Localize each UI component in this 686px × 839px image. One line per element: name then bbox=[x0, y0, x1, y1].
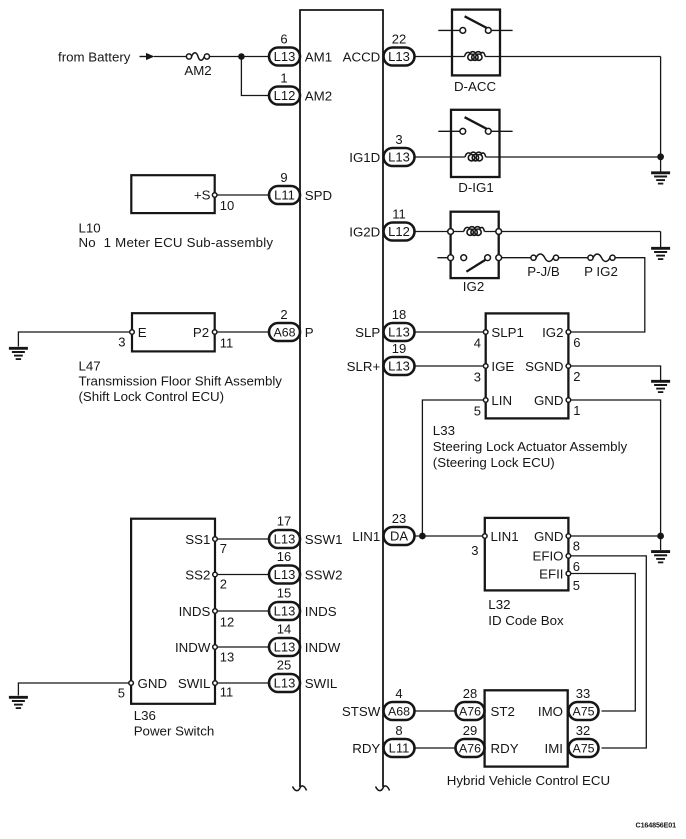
svg-text:L13: L13 bbox=[388, 325, 410, 340]
svg-text:A75: A75 bbox=[572, 705, 594, 719]
svg-text:from Battery: from Battery bbox=[58, 49, 131, 64]
connector oval L13 (ACCD pin 22) bbox=[384, 48, 415, 66]
svg-text:SSW1: SSW1 bbox=[305, 532, 343, 547]
terminal GND (pin 1) bbox=[566, 398, 571, 403]
svg-text:32: 32 bbox=[576, 723, 590, 738]
svg-text:18: 18 bbox=[392, 307, 406, 322]
svg-text:L13: L13 bbox=[388, 49, 410, 64]
wire: L33 SGND to ground bbox=[568, 366, 660, 380]
svg-text:11: 11 bbox=[392, 207, 406, 222]
svg-text:AM2: AM2 bbox=[305, 88, 332, 103]
connector oval A75 (IMO pin 33) bbox=[569, 702, 599, 720]
svg-text:ACCD: ACCD bbox=[343, 49, 381, 64]
svg-text:LIN1: LIN1 bbox=[491, 529, 519, 544]
svg-text:2: 2 bbox=[573, 369, 580, 384]
svg-text:15: 15 bbox=[277, 586, 291, 601]
connector oval L11 (RDY pin 8) bbox=[384, 739, 415, 757]
svg-text:P2: P2 bbox=[193, 325, 209, 340]
connector oval L13 (INDS pin 15) bbox=[269, 602, 300, 620]
svg-text:23: 23 bbox=[392, 511, 406, 526]
svg-text:13: 13 bbox=[220, 649, 234, 664]
svg-text:L10: L10 bbox=[79, 220, 101, 235]
svg-text:L47: L47 bbox=[79, 358, 101, 373]
wire: SLR+ to L33 IGE bbox=[415, 365, 486, 367]
connector oval A75 (IMI pin 32) bbox=[569, 739, 599, 757]
Hybrid Vehicle Control ECU box bbox=[485, 690, 568, 766]
svg-text:L13: L13 bbox=[274, 640, 296, 655]
L33 Steering Lock Actuator Assembly box bbox=[486, 313, 569, 418]
svg-text:INDW: INDW bbox=[305, 640, 341, 655]
connector oval DA (LIN1 pin 23) bbox=[384, 527, 415, 545]
svg-text:9: 9 bbox=[280, 170, 287, 185]
break squiggle at bottom of right column line bbox=[376, 786, 390, 791]
connector oval A76 (RDY pin 29) bbox=[456, 739, 485, 757]
wire: P-J/B to fuse P IG2 bbox=[559, 257, 588, 259]
svg-text:EFII: EFII bbox=[539, 566, 563, 581]
svg-text:28: 28 bbox=[463, 686, 477, 701]
svg-text:A68: A68 bbox=[388, 705, 410, 719]
svg-text:A76: A76 bbox=[459, 742, 481, 756]
wire: L32 GND to ground bbox=[571, 535, 661, 537]
terminal IGE (pin 3) bbox=[483, 364, 488, 369]
svg-text:IMI: IMI bbox=[545, 741, 563, 756]
svg-text:P: P bbox=[305, 325, 314, 340]
svg-text:6: 6 bbox=[573, 559, 580, 574]
svg-text:4: 4 bbox=[395, 686, 402, 701]
wire: branch down to AM2 connector bbox=[241, 57, 269, 96]
svg-text:GND: GND bbox=[534, 529, 564, 544]
svg-text:SLR+: SLR+ bbox=[347, 359, 381, 374]
svg-text:2: 2 bbox=[220, 576, 227, 591]
relay D-ACC bbox=[438, 10, 512, 76]
break squiggle at bottom of left column line bbox=[293, 786, 307, 791]
svg-text:Steering Lock Actuator Assembl: Steering Lock Actuator Assembly bbox=[433, 439, 628, 454]
svg-text:EFIO: EFIO bbox=[532, 549, 563, 564]
wire: IG2D through IG2 relay coil to ground bbox=[415, 231, 464, 233]
svg-text:L36: L36 bbox=[134, 708, 156, 723]
svg-text:3: 3 bbox=[474, 369, 481, 384]
L32 ID Code Box bbox=[485, 518, 569, 591]
svg-text:19: 19 bbox=[392, 341, 406, 356]
pin circle +S (pin 10) bbox=[212, 193, 217, 198]
svg-text:SPD: SPD bbox=[305, 188, 332, 203]
svg-text:12: 12 bbox=[220, 614, 234, 629]
wire: RDY to A76 bbox=[415, 747, 457, 749]
svg-text:D-IG1: D-IG1 bbox=[458, 180, 493, 195]
svg-text:2: 2 bbox=[280, 307, 287, 322]
ECU connector column (central vertical bus) bbox=[299, 10, 384, 787]
svg-text:IG2: IG2 bbox=[542, 325, 563, 340]
svg-text:5: 5 bbox=[573, 578, 580, 593]
svg-text:3: 3 bbox=[118, 334, 125, 349]
svg-text:(Shift Lock Control ECU): (Shift Lock Control ECU) bbox=[79, 389, 225, 404]
svg-text:29: 29 bbox=[463, 723, 477, 738]
svg-text:SS1: SS1 bbox=[185, 532, 210, 547]
wire: IG2 switch to fuse P-J/B bbox=[502, 257, 531, 259]
svg-text:IG2D: IG2D bbox=[349, 224, 380, 239]
svg-text:11: 11 bbox=[220, 335, 234, 350]
wire: fuse to connector L13 (AM1) bbox=[210, 56, 270, 58]
terminal EFIO (pin 8) bbox=[566, 554, 571, 559]
L10 No 1 Meter ECU Sub-assembly box bbox=[131, 175, 214, 213]
svg-text:RDY: RDY bbox=[352, 741, 380, 756]
ground (L32 GND / L33 GND) bbox=[651, 552, 670, 563]
connector oval L12 (IG2D pin 11) bbox=[384, 223, 415, 241]
terminal SLP1 (pin 4) bbox=[483, 330, 488, 335]
svg-text:17: 17 bbox=[277, 514, 291, 529]
svg-text:8: 8 bbox=[573, 539, 580, 554]
svg-text:L13: L13 bbox=[388, 150, 410, 165]
ground (L36 GND terminal) bbox=[18, 683, 131, 696]
fuse P-J/B bbox=[531, 254, 559, 262]
svg-text:INDW: INDW bbox=[175, 640, 211, 655]
wire: P2 to connector A68 bbox=[215, 331, 270, 333]
wire: ACCD through D-ACC coil to right bus bbox=[415, 56, 465, 58]
svg-text:LIN: LIN bbox=[491, 393, 512, 408]
svg-text:Transmission Floor Shift Assem: Transmission Floor Shift Assembly bbox=[79, 374, 283, 389]
svg-text:1: 1 bbox=[280, 71, 287, 86]
svg-text:L33: L33 bbox=[433, 423, 455, 438]
svg-text:L11: L11 bbox=[389, 741, 410, 756]
junction node LIN1 bus bbox=[419, 533, 426, 540]
svg-text:SWIL: SWIL bbox=[305, 676, 338, 691]
svg-text:P-J/B: P-J/B bbox=[527, 264, 560, 279]
svg-text:SLP1: SLP1 bbox=[491, 325, 524, 340]
svg-text:5: 5 bbox=[118, 685, 125, 700]
arrow (battery feed direction) bbox=[140, 56, 148, 58]
svg-text:IGE: IGE bbox=[491, 359, 514, 374]
svg-text:A68: A68 bbox=[273, 326, 295, 340]
svg-text:L12: L12 bbox=[388, 224, 410, 239]
svg-text:SGND: SGND bbox=[525, 359, 563, 374]
terminal GND of L32 bbox=[566, 534, 571, 539]
ground (IG2 relay coil) bbox=[651, 248, 670, 259]
relay IG2 bbox=[438, 212, 502, 278]
svg-text:L13: L13 bbox=[274, 49, 296, 64]
svg-text:SSW2: SSW2 bbox=[305, 567, 343, 582]
svg-text:LIN1: LIN1 bbox=[352, 529, 380, 544]
terminal LIN (pin 5) bbox=[483, 398, 488, 403]
svg-text:ID Code Box: ID Code Box bbox=[488, 613, 564, 628]
svg-text:A76: A76 bbox=[459, 705, 481, 719]
svg-text:+S: +S bbox=[194, 188, 211, 203]
wire: L33 GND down right side to L32 GND junction bbox=[568, 400, 660, 536]
L36 Power Switch box bbox=[131, 519, 215, 704]
svg-text:33: 33 bbox=[576, 686, 590, 701]
junction node at right bus / L32 GND bbox=[657, 533, 664, 540]
wire: +S pin to SPD connector bbox=[215, 194, 270, 196]
connector oval L13 (IG1D pin 3) bbox=[384, 148, 415, 166]
wire: EFII right and down to IMO bbox=[571, 574, 636, 712]
connector oval L11 (SPD pin 9) bbox=[269, 186, 300, 204]
svg-text:11: 11 bbox=[220, 684, 234, 699]
svg-text:(Steering Lock ECU): (Steering Lock ECU) bbox=[433, 455, 555, 470]
wire: STSW to A76 bbox=[415, 710, 457, 712]
wire: right bus down to ground junction bbox=[660, 57, 662, 172]
terminal LIN1 (pin 3) bbox=[483, 534, 488, 539]
terminal SGND (pin 2) bbox=[566, 364, 571, 369]
svg-text:SWIL: SWIL bbox=[178, 676, 211, 691]
connector oval L13 (INDW pin 14) bbox=[269, 638, 300, 656]
svg-text:L13: L13 bbox=[274, 676, 296, 691]
svg-text:IG1D: IG1D bbox=[349, 150, 380, 165]
svg-text:8: 8 bbox=[395, 723, 402, 738]
svg-text:RDY: RDY bbox=[491, 741, 519, 756]
wire: arrow to fuse AM2 bbox=[154, 56, 186, 58]
svg-text:4: 4 bbox=[474, 335, 481, 350]
connector oval L12 (AM2 pin 1) bbox=[269, 87, 300, 105]
connector oval L13 (SWIL pin 25) bbox=[269, 674, 300, 692]
wire: P IG2 down to L33 IG2 pin bbox=[571, 258, 645, 332]
svg-text:E: E bbox=[138, 325, 147, 340]
svg-text:GND: GND bbox=[534, 393, 564, 408]
ground (L47 E terminal) bbox=[18, 332, 132, 347]
junction node at right bus / IG1D bbox=[657, 153, 664, 160]
wire: LIN1 to L32 bbox=[415, 535, 485, 537]
junction node after fuse AM2 bbox=[238, 53, 245, 60]
svg-text:25: 25 bbox=[277, 658, 291, 673]
connector oval A76 (ST2 pin 28) bbox=[456, 702, 485, 720]
svg-text:Power Switch: Power Switch bbox=[134, 724, 215, 739]
svg-text:ST2: ST2 bbox=[491, 704, 515, 719]
svg-text:3: 3 bbox=[395, 132, 402, 147]
svg-text:L11: L11 bbox=[274, 188, 295, 203]
svg-text:IMO: IMO bbox=[538, 704, 563, 719]
svg-text:AM2: AM2 bbox=[184, 63, 211, 78]
svg-text:GND: GND bbox=[138, 676, 168, 691]
connector oval A68 (STSW pin 4) bbox=[384, 702, 415, 720]
svg-text:P IG2: P IG2 bbox=[584, 264, 618, 279]
wire: L33 LIN down to LIN1 bus bbox=[422, 400, 485, 536]
ground (L33 SGND) bbox=[651, 381, 670, 392]
svg-text:L13: L13 bbox=[274, 567, 296, 582]
svg-text:6: 6 bbox=[573, 335, 580, 350]
svg-text:INDS: INDS bbox=[179, 604, 211, 619]
L47 Transmission Floor Shift Assembly box bbox=[132, 313, 215, 351]
wire: IG1D through D-IG1 coil to ground junction bbox=[415, 156, 466, 158]
svg-text:14: 14 bbox=[277, 622, 291, 637]
svg-text:AM1: AM1 bbox=[305, 49, 332, 64]
fuse P IG2 bbox=[588, 254, 615, 262]
connector oval L13 (SLR+ pin 19) bbox=[384, 357, 415, 375]
connector oval A68 (P pin 2) bbox=[269, 323, 300, 341]
svg-text:1: 1 bbox=[573, 403, 580, 418]
svg-text:A75: A75 bbox=[572, 742, 594, 756]
svg-text:10: 10 bbox=[220, 198, 234, 213]
svg-text:5: 5 bbox=[474, 403, 481, 418]
svg-text:6: 6 bbox=[280, 32, 287, 47]
connector oval L13 (SSW1 pin 17) bbox=[269, 530, 300, 548]
svg-text:No 1 Meter ECU Sub-assembly: No 1 Meter ECU Sub-assembly bbox=[79, 235, 274, 250]
svg-text:L32: L32 bbox=[488, 597, 510, 612]
svg-text:SLP: SLP bbox=[355, 325, 380, 340]
connector oval L13 (AM1 pin 6) bbox=[269, 48, 300, 66]
svg-text:16: 16 bbox=[277, 549, 291, 564]
fuse AM2 bbox=[186, 53, 209, 61]
svg-text:L12: L12 bbox=[274, 88, 296, 103]
svg-text:DA: DA bbox=[390, 529, 408, 544]
wire: SLP to L33 SLP1 bbox=[415, 331, 486, 333]
svg-text:L13: L13 bbox=[388, 359, 410, 374]
svg-text:D-ACC: D-ACC bbox=[454, 79, 497, 94]
terminal IG2 (pin 6) bbox=[566, 330, 571, 335]
ground (D-ACC / D-IG1 circuits) bbox=[651, 173, 670, 184]
svg-text:L13: L13 bbox=[274, 532, 296, 547]
svg-text:L13: L13 bbox=[274, 604, 296, 619]
svg-text:INDS: INDS bbox=[305, 604, 337, 619]
svg-text:C164856E01: C164856E01 bbox=[636, 821, 677, 830]
wire: EFIO right and down to IMI bbox=[571, 556, 647, 748]
svg-text:STSW: STSW bbox=[342, 704, 381, 719]
svg-text:7: 7 bbox=[220, 541, 227, 556]
svg-text:Hybrid Vehicle Control ECU: Hybrid Vehicle Control ECU bbox=[447, 773, 610, 788]
connector oval L13 (SLP pin 18) bbox=[384, 323, 415, 341]
svg-text:IG2: IG2 bbox=[463, 279, 484, 294]
connector oval L13 (SSW2 pin 16) bbox=[269, 566, 300, 584]
svg-text:3: 3 bbox=[471, 543, 478, 558]
svg-text:SS2: SS2 bbox=[185, 567, 210, 582]
svg-text:22: 22 bbox=[392, 32, 406, 47]
relay D-IG1 bbox=[438, 110, 512, 177]
terminal EFII (pin 6/5) bbox=[566, 571, 571, 576]
